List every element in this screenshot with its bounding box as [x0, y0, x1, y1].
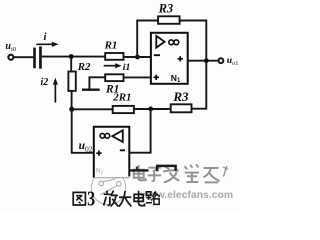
wire	[89, 77, 105, 88]
wire	[72, 108, 113, 110]
ground	[82, 89, 100, 91]
current arrow i	[36, 32, 58, 47]
op-amp N1	[151, 33, 188, 84]
current arrow i1	[104, 62, 131, 73]
svg-text:R2: R2	[77, 61, 91, 73]
svg-text:i2: i2	[41, 77, 49, 88]
放	[104, 191, 111, 206]
路	[146, 192, 152, 203]
wire	[70, 57, 72, 72]
node C junction	[135, 55, 140, 60]
wire	[137, 21, 158, 58]
wire	[14, 56, 34, 58]
svg-text:R3: R3	[172, 89, 189, 104]
fake hanzi watermark 电子发烧友	[134, 164, 228, 182]
resistor R2	[68, 72, 75, 91]
wire	[124, 56, 152, 58]
wire	[180, 21, 206, 109]
dark bar row over watermark	[130, 169, 149, 171]
svg-text:i: i	[44, 32, 47, 43]
svg-text:3: 3	[87, 188, 95, 211]
input terminal u_i0	[8, 55, 13, 60]
svg-text:R1: R1	[104, 39, 118, 51]
node A junction	[69, 54, 74, 59]
resistor R1 top	[105, 53, 123, 60]
current arrow i2	[41, 77, 58, 102]
大	[119, 191, 131, 207]
wire	[129, 109, 150, 153]
wire	[134, 108, 171, 110]
svg-text:R1: R1	[105, 83, 119, 95]
svg-text:R3: R3	[158, 2, 174, 16]
wire	[71, 91, 73, 109]
wire	[42, 56, 105, 58]
svg-text:i1: i1	[123, 62, 131, 73]
figure caption 图3 放大电路	[73, 188, 160, 212]
output terminal u_o1	[219, 58, 224, 63]
node B junction	[69, 107, 74, 112]
svg-text:N2: N2	[96, 168, 103, 175]
wire	[72, 109, 95, 153]
node E junction	[148, 107, 153, 112]
resistor R3 top	[158, 16, 180, 24]
wire	[188, 60, 218, 62]
node D junction	[204, 58, 209, 63]
resistor R3 bottom	[171, 104, 192, 112]
resistor 2R1	[113, 106, 134, 113]
op-amp N2	[94, 127, 130, 178]
capacitor	[33, 46, 42, 68]
wire	[124, 76, 152, 78]
电	[134, 191, 144, 206]
resistor R1 bottom	[105, 74, 123, 81]
